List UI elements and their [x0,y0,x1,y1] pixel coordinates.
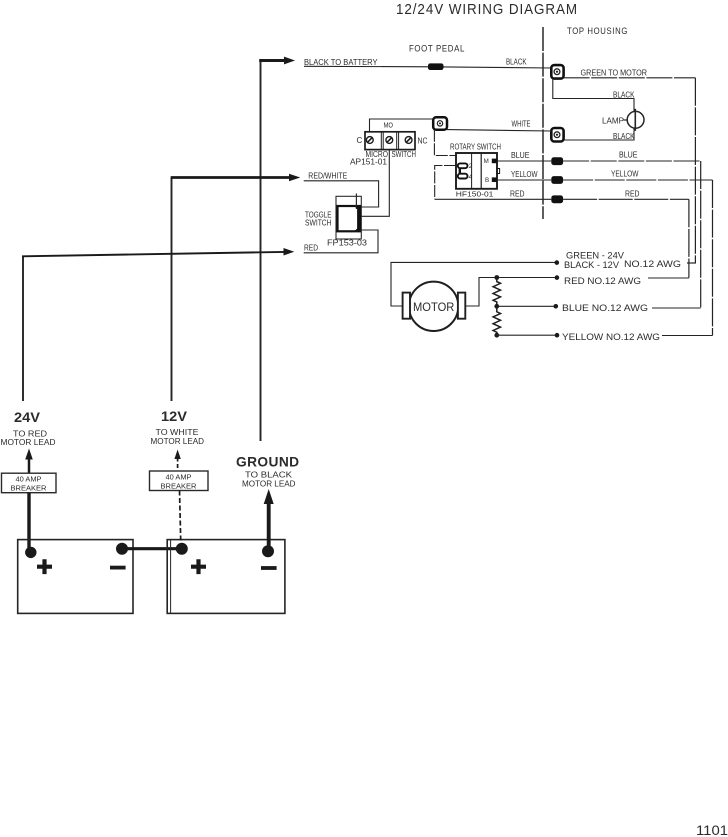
wire red/white to toggle top [304,181,379,207]
wire foot pedal black wire [304,66,552,68]
wire black-to-battery arrow stem [259,59,285,62]
wire CB2 to battery2 positive dashed [180,491,181,545]
svg-text:NO.12 AWG: NO.12 AWG [624,259,681,269]
arrowhead 24V up [25,449,33,460]
svg-text:12V: 12V [161,409,187,424]
node motor top wire end dot [555,260,560,265]
battery BT1 case [18,540,133,614]
node battery1 negative terminal [116,543,128,555]
node battery1 positive terminal [25,547,36,558]
svg-text:BLACK: BLACK [506,57,527,66]
resistor R2 [493,306,500,335]
svg-text:TOP HOUSING: TOP HOUSING [567,26,628,37]
wire yellow awg stub [497,334,557,336]
wire white connector to rotary pin1 [434,130,456,156]
connector red bulkhead block [551,195,563,203]
wire blue awg stub [497,305,556,307]
svg-text:BLACK TO BATTERY: BLACK TO BATTERY [304,58,378,67]
wire green vertical drop [694,78,696,263]
battery1 plus symbol [37,559,52,574]
wire green to motor horizontal [564,77,696,79]
svg-text:RED: RED [510,189,525,198]
top housing boundary line [542,27,544,219]
wire motor positive top run [391,262,557,306]
node resistor top junction [494,275,499,280]
svg-text:HF150-01: HF150-01 [456,189,494,198]
wire blue from rotary M [497,160,551,162]
connector blue bulkhead block [551,157,563,165]
toggle switch S1 [336,194,361,240]
node yellow awg dot [555,333,560,338]
svg-text:BLACK - 12V: BLACK - 12V [564,260,620,270]
wire red to toggle bottom [304,230,378,253]
svg-text:BLACK: BLACK [613,91,635,100]
connector foot pedal inline splice [428,63,444,70]
wire blue vertical drop [700,161,702,308]
connector yellow bulkhead block [551,176,563,184]
wire red label to drop [648,277,689,279]
svg-text:MOTOR LEAD: MOTOR LEAD [242,479,296,488]
connector white mid splice [433,117,447,129]
svg-text:RED/WHITE: RED/WHITE [308,172,347,181]
svg-text:NC: NC [418,136,428,145]
svg-text:YELLOW NO.12 AWG: YELLOW NO.12 AWG [562,332,660,342]
svg-text:YELLOW: YELLOW [511,170,538,179]
svg-text:FP153-03: FP153-03 [327,239,368,248]
breaker CB1 40 AMP box [2,473,57,493]
connector green terminal on housing [551,65,563,79]
node red awg dot [555,275,560,280]
micro switch U1 body [365,132,415,150]
resistor R1 [493,278,500,307]
svg-text:ROTARY SWITCH: ROTARY SWITCH [450,143,501,152]
svg-text:GREEN TO MOTOR: GREEN TO MOTOR [581,69,648,78]
wire red long run [435,198,552,200]
svg-text:MOTOR LEAD: MOTOR LEAD [1,438,56,447]
svg-text:MOTOR LEAD: MOTOR LEAD [151,437,205,446]
wire battery link BT1- to BT2+ [122,547,182,550]
node resistor mid junction [494,304,499,309]
svg-text:AP151-01: AP151-01 [350,157,388,166]
svg-text:24V: 24V [14,410,40,425]
wire 24V arrow shaft [28,457,31,474]
battery2 plus symbol [191,559,206,574]
wire green end tick [687,262,696,264]
node battery2 positive terminal [176,543,188,555]
battery2 minus symbol [261,566,277,570]
wire micro C to mid connector [370,119,434,133]
wire 12V riser vertical [171,177,173,401]
wire 24V riser vertical [22,256,24,401]
svg-text:BLACK: BLACK [613,132,635,141]
svg-text:BREAKER: BREAKER [11,483,48,492]
node battery2 negative terminal [262,545,274,557]
breaker CB2 40 AMP box [150,471,209,491]
wire ground arrow shaft to battery2 negative [267,502,271,548]
wire motor right to red node [465,278,557,307]
screw terminal C [366,137,373,144]
wire micro MO to toggle [361,150,389,217]
screw terminal NC [405,137,412,144]
wire red vertical drop [688,199,690,277]
wire ground riser vertical [260,61,262,442]
wire 12V arrow shaft dashed [177,458,179,472]
svg-text:BLUE: BLUE [511,151,530,160]
svg-text:1101: 1101 [696,822,728,837]
wire lamp top black lead [553,79,634,112]
motor M1 [403,282,466,331]
svg-text:TO WHITE: TO WHITE [156,428,199,437]
svg-text:WHITE: WHITE [512,120,531,129]
svg-text:SWITCH: SWITCH [392,150,417,159]
svg-text:RED: RED [625,190,640,199]
svg-text:LAMP: LAMP [602,117,624,126]
arrowhead 12V up (dashed feed) [174,450,180,460]
svg-text:BLUE: BLUE [619,150,638,159]
wire white horizontal [447,130,551,131]
wire yellow from rotary B [497,179,551,181]
node blue awg dot [554,304,559,309]
wire blue label to drop [652,307,701,309]
wire lamp bottom black lead [564,128,634,140]
node resistor bottom junction [494,333,499,338]
svg-text:BLUE NO.12 AWG: BLUE NO.12 AWG [562,303,648,313]
svg-text:YELLOW: YELLOW [611,169,639,178]
svg-text:4: 4 [469,174,473,181]
wire yellow label to drop [662,335,713,337]
svg-text:SWITCH: SWITCH [305,219,332,228]
svg-text:TO BLACK: TO BLACK [245,471,293,480]
svg-text:C: C [357,136,363,145]
wire rotary pin2 to red net [435,166,456,200]
svg-text:RED NO.12 AWG: RED NO.12 AWG [564,276,641,286]
wire blue housing run [563,160,701,162]
wire yellow vertical drop [712,180,714,336]
rotary switch S2 body [456,153,500,189]
svg-text:RED: RED [304,244,318,253]
arrowhead red/white [289,174,300,182]
battery BT2 case [167,540,285,614]
svg-text:GROUND: GROUND [236,454,300,470]
arrowhead red [284,248,295,256]
wire yellow housing run [563,179,712,181]
lamp DS1 [624,109,644,131]
battery BT2 case inner edge line [170,540,172,614]
svg-text:12/24V WIRING DIAGRAM: 12/24V WIRING DIAGRAM [396,2,578,18]
wire red housing run [563,198,689,200]
svg-text:MO: MO [384,121,394,130]
arrowhead ground up [264,489,274,504]
svg-text:2: 2 [469,163,473,170]
svg-text:B: B [485,177,489,184]
battery1 minus symbol [110,566,126,570]
connector white terminal on housing [551,128,563,142]
screw terminal MO [386,137,393,144]
svg-text:BREAKER: BREAKER [161,481,198,490]
wire red/white arrow stem [171,176,290,179]
arrowhead black-to-battery [284,57,295,65]
svg-text:FOOT PEDAL: FOOT PEDAL [409,44,465,54]
wire red arrow stem (24V feed) [22,252,285,256]
svg-text:M: M [484,158,489,165]
svg-text:MOTOR: MOTOR [413,300,455,314]
wire CB1 to battery1 positive [27,493,30,549]
